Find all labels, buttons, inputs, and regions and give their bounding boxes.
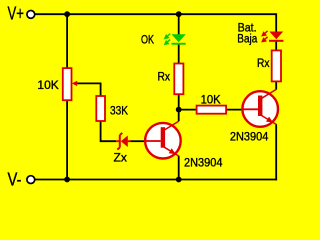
svg-text:2N3904: 2N3904 — [184, 155, 223, 169]
svg-text:Rx: Rx — [158, 70, 171, 84]
resistor Rx (middle) body — [174, 64, 183, 95]
resistor 33K body — [96, 96, 105, 121]
wire left leg: top rail to potentiometer — [66, 14, 68, 68]
wire left leg: potentiometer to bottom rail — [66, 100, 68, 180]
node junction bottom-middle rail — [176, 177, 182, 183]
wire right leg: Q2 emitter to bottom rail — [275, 124, 277, 180]
node junction middle leg / 10K branch — [176, 107, 182, 113]
potentiometer 10K wiper arrow — [72, 81, 77, 86]
svg-text:10K: 10K — [37, 78, 58, 92]
svg-text:Zx: Zx — [114, 151, 127, 165]
svg-text:OK: OK — [141, 33, 154, 47]
wire right leg: Rx to Q2 collector — [275, 81, 277, 89]
svg-text:10K: 10K — [201, 93, 221, 107]
svg-text:V-: V- — [8, 169, 22, 189]
wire top rail V+ — [35, 13, 277, 15]
svg-text:33K: 33K — [110, 104, 128, 118]
resistor Rx (right) body — [272, 50, 281, 81]
wire 33K bottom to zener Zx — [101, 121, 117, 141]
svg-text:2N3904: 2N3904 — [230, 129, 269, 143]
wire right leg: LED to Rx — [275, 41, 277, 51]
LED OK emission arrows — [165, 34, 170, 45]
potentiometer 10K body — [63, 68, 72, 100]
LED OK (green) — [172, 34, 186, 44]
terminal V- — [27, 176, 35, 184]
wire middle leg: OK LED to Rx — [178, 44, 180, 63]
LED Bat.Baja emission arrows — [262, 31, 267, 42]
svg-text:Rx: Rx — [257, 56, 270, 70]
svg-text:Baja: Baja — [237, 34, 258, 46]
terminal V+ — [27, 11, 35, 19]
node junction top-left rail — [64, 11, 70, 17]
wire 10K branch left (node to resistor) — [179, 109, 197, 111]
node junction bottom-left rail — [64, 177, 70, 183]
wire middle leg: top rail to OK LED — [178, 14, 180, 34]
wire right leg: top rail corner down to LED — [275, 13, 277, 32]
svg-text:V+: V+ — [8, 4, 25, 24]
wire bottom rail V- — [35, 179, 278, 181]
wire wiper branch: pot wiper to 33K top — [76, 83, 100, 96]
wire middle leg: Rx to Q1 collector — [178, 94, 180, 121]
wire 10K branch right (resistor to Q2 base) — [226, 109, 243, 111]
zener diode Zx — [116, 133, 131, 150]
transistor Q1 2N3904 — [145, 121, 181, 158]
LED Bat.Baja (red) — [269, 32, 283, 42]
node junction top-middle rail — [176, 11, 182, 17]
transistor Q2 2N3904 — [242, 89, 278, 126]
wire zener Zx to Q1 base — [131, 140, 147, 142]
wire middle leg: Q1 emitter to bottom rail — [178, 156, 180, 180]
resistor 10K (base of Q2) body — [197, 106, 227, 114]
